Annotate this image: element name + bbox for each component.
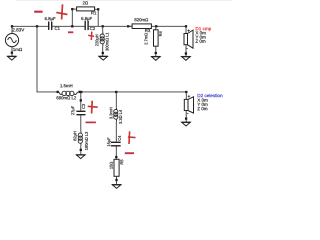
red cursor cross D xyxy=(128,131,136,144)
red cursor dash 4 xyxy=(125,152,134,154)
wire: L4 top lead xyxy=(115,92,117,108)
wire: R1 bypass right rail xyxy=(97,9,99,26)
ground under R5 xyxy=(112,185,121,189)
node C: junction feeding shunt resistor R4 xyxy=(155,25,157,27)
wire: R3 leads xyxy=(128,25,132,27)
wire: row 2 rail xyxy=(81,91,187,93)
capacitor C4 15uF xyxy=(107,136,120,147)
red cursor cross C xyxy=(88,101,98,114)
wire: D2 bottom lead xyxy=(185,111,187,123)
resistor R4 2.7mOhm xyxy=(145,30,162,46)
ground under V1 xyxy=(8,56,17,60)
node dot left of R3 xyxy=(127,25,129,27)
wire: between L4 and C4 xyxy=(115,122,117,142)
ground under R4 xyxy=(152,57,161,61)
resistor R1 2ohm xyxy=(77,1,97,14)
wire: C3 top lead xyxy=(80,92,82,111)
wire: between C3 and L3 xyxy=(80,115,82,131)
ground under L1 xyxy=(99,56,108,60)
wire: R5 bottom lead xyxy=(116,176,118,184)
red cursor dash 3 xyxy=(86,121,96,123)
voltage source V1 2.83V 1mOhm xyxy=(5,25,24,54)
red cursor dash 2 xyxy=(68,31,73,33)
node A: top rail junction to woofer branch xyxy=(36,25,38,27)
speaker D1 cmp xyxy=(184,27,211,48)
wire: R1 leads xyxy=(72,8,76,10)
ground under D2 xyxy=(182,122,191,126)
wire: L3 bottom lead xyxy=(80,145,82,155)
wire: R1 bypass left rail xyxy=(71,9,73,26)
inductor L3 82uH 180mOhm xyxy=(78,131,82,145)
wire: D1 bottom lead xyxy=(185,45,187,57)
wire: L1 top lead xyxy=(102,26,104,32)
inductor L1 220uH 300mOhm xyxy=(100,32,104,46)
red cursor dash 1 xyxy=(34,11,42,13)
wire: R4 top lead xyxy=(155,26,157,30)
wire: R4 bottom lead xyxy=(155,46,157,56)
wire: main top rail xyxy=(12,25,186,27)
window edge artifact top xyxy=(16,0,233,1)
node dot right of R1 xyxy=(97,8,99,10)
wire: branch down from node A and across row 2 xyxy=(37,26,58,92)
wire: row 2 drop to D2 xyxy=(185,91,187,93)
node E: junction feeding L4 notch branch xyxy=(115,91,117,93)
junction dot on main rail below left rail xyxy=(71,25,73,27)
wire: L1 bottom lead xyxy=(102,46,104,56)
node B: junction feeding shunt inductor L1 xyxy=(102,25,104,27)
wire: V1 top lead xyxy=(11,26,13,33)
capacitor C2 6.8uF xyxy=(81,17,95,30)
inductor L2 1.5mH 680mOhm xyxy=(57,84,81,99)
ground under D1 xyxy=(182,57,191,61)
capacitor C3 27uF xyxy=(71,104,85,115)
capacitor C1 6.8uF xyxy=(45,17,60,30)
resistor R3 820mOhm xyxy=(132,18,151,32)
inductor L4 3.3mH 3.3ohm xyxy=(114,108,118,122)
wire: top rail drop to D1 xyxy=(185,25,187,27)
node dot left of R1 xyxy=(71,8,73,10)
plus terminal mark D2 xyxy=(188,95,190,97)
ground under L3 xyxy=(76,155,85,159)
node D: junction feeding C3 midrange branch xyxy=(80,91,82,93)
red cursor cross A xyxy=(56,4,67,19)
plus terminal mark D1 xyxy=(187,29,189,31)
wire: between C4 and R5 xyxy=(115,146,117,159)
resistor R5 15ohm xyxy=(110,159,123,176)
red cursor cross B xyxy=(88,32,94,40)
speaker D2 celestion xyxy=(184,94,222,114)
wire: V1 bottom lead xyxy=(11,47,13,57)
